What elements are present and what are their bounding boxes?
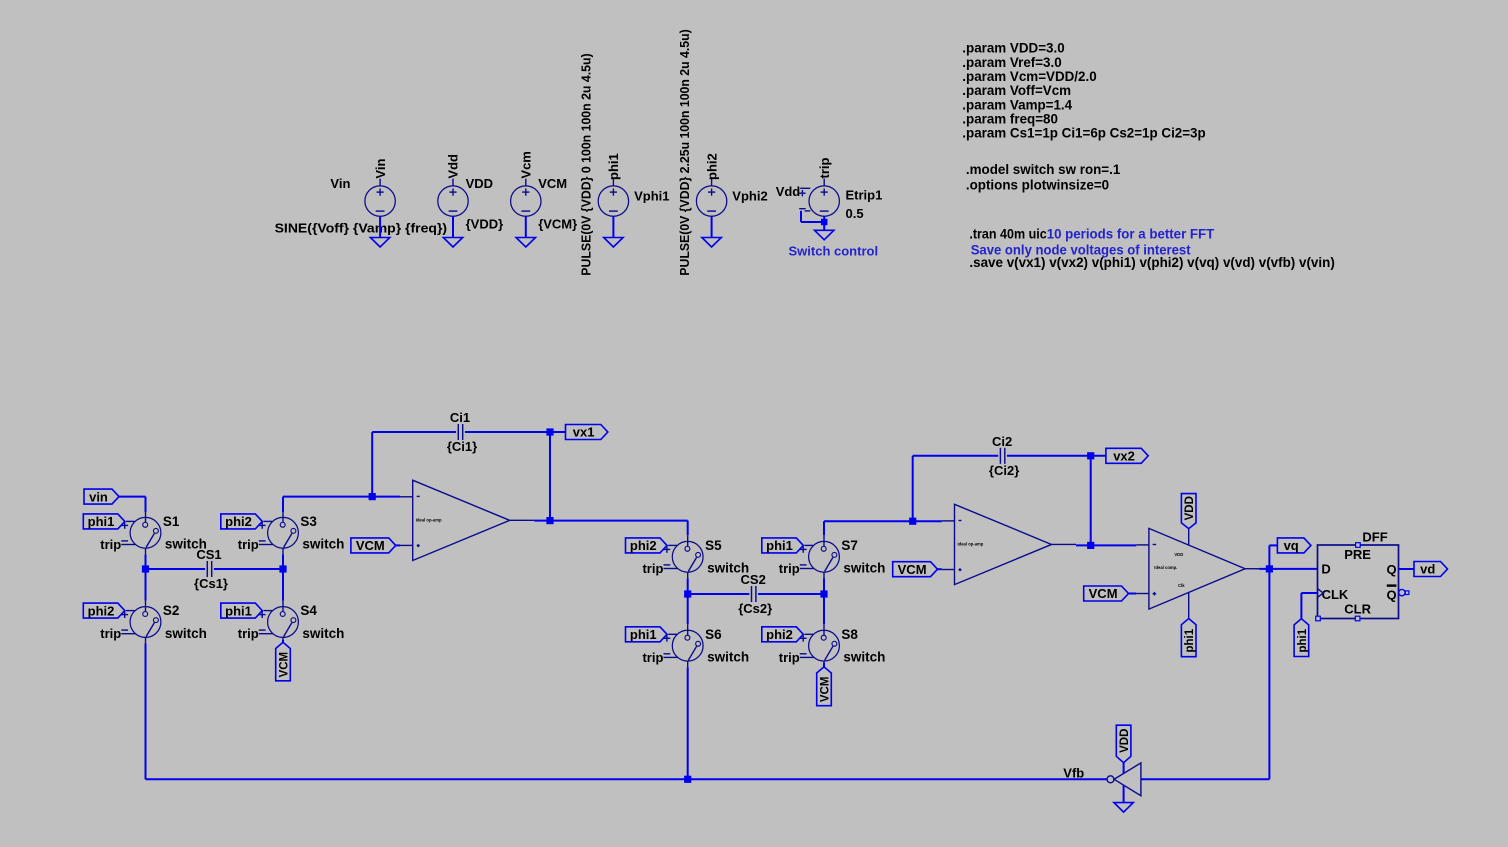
wire xyxy=(1090,456,1092,546)
svg-text:switch: switch xyxy=(302,626,344,641)
net flag VCM under S8 xyxy=(817,667,832,706)
ground xyxy=(443,238,462,248)
voltage source Vphi1 xyxy=(580,53,670,275)
ground xyxy=(516,238,535,248)
spice directive .model xyxy=(966,162,1121,177)
wire xyxy=(452,216,454,237)
svg-text:Clk: Clk xyxy=(1178,583,1185,588)
svg-text:switch: switch xyxy=(707,650,749,665)
svg-text:vd: vd xyxy=(1420,562,1435,577)
voltage source VCM xyxy=(511,151,578,231)
net flag phi1 at S6 xyxy=(626,627,668,642)
net flag phi2 at S8 xyxy=(762,627,804,642)
node junction xyxy=(279,565,286,572)
svg-text:switch: switch xyxy=(843,561,885,576)
svg-text:S6: S6 xyxy=(705,627,722,642)
svg-text:Q: Q xyxy=(1386,587,1396,602)
wire xyxy=(372,431,456,433)
wire xyxy=(282,640,284,642)
net flag phi1 at S1 xyxy=(83,514,125,529)
svg-text:vin: vin xyxy=(89,489,108,504)
net flag vd xyxy=(1414,562,1448,577)
wire xyxy=(1129,593,1137,595)
wire xyxy=(687,578,689,624)
comparator U3 xyxy=(1136,528,1259,618)
svg-text:phi2: phi2 xyxy=(88,603,115,618)
wire xyxy=(1076,544,1136,546)
svg-text:vx1: vx1 xyxy=(573,425,595,440)
wire xyxy=(465,431,566,433)
svg-text:SINE({Voff} {Vamp} {freq}): SINE({Voff} {Vamp} {freq}) xyxy=(275,221,448,236)
wire xyxy=(823,578,825,624)
wire xyxy=(1141,778,1270,780)
net flag VDD at A2 xyxy=(1116,725,1131,763)
node junction xyxy=(546,517,553,524)
svg-text:VDD: VDD xyxy=(1184,496,1196,520)
svg-text:S8: S8 xyxy=(841,627,858,642)
svg-text:VDD: VDD xyxy=(466,176,493,191)
node 0 junction xyxy=(821,219,828,226)
net flag phi1 at DFF xyxy=(1294,619,1309,657)
inverter A2 xyxy=(1107,763,1141,803)
ground xyxy=(1114,803,1133,813)
svg-text:VDD: VDD xyxy=(1174,552,1183,557)
wire xyxy=(1259,568,1317,570)
wire xyxy=(119,497,146,512)
wire xyxy=(1301,593,1317,619)
net flag phi1 at S7 xyxy=(762,538,804,553)
wire xyxy=(711,216,713,237)
voltage source Vphi2 xyxy=(678,29,768,275)
svg-text:trip: trip xyxy=(642,561,663,576)
wire xyxy=(283,497,400,512)
svg-text:0.5: 0.5 xyxy=(846,206,864,221)
net flag vx1 xyxy=(566,425,608,440)
svg-text:trip: trip xyxy=(238,537,259,552)
net flag phi1 at U3 xyxy=(1181,619,1196,657)
svg-text:phi2: phi2 xyxy=(704,153,719,180)
net flag VDD at U3 xyxy=(1181,494,1196,529)
svg-text:{VDD}: {VDD} xyxy=(466,217,504,232)
node junction xyxy=(909,518,916,525)
net flag vq xyxy=(1277,538,1311,553)
wire xyxy=(938,568,942,570)
ground xyxy=(702,238,721,248)
node junction xyxy=(546,428,553,435)
wire xyxy=(1269,545,1277,569)
svg-text:phi1: phi1 xyxy=(606,153,621,180)
svg-text:.param Vamp=1.4: .param Vamp=1.4 xyxy=(962,97,1072,112)
node junction xyxy=(1087,542,1094,549)
capacitor CS2 xyxy=(738,572,772,616)
wire xyxy=(823,216,825,230)
svg-text:.param VDD=3.0: .param VDD=3.0 xyxy=(962,41,1064,56)
svg-text:trip: trip xyxy=(779,650,800,665)
svg-text:VCM: VCM xyxy=(1089,586,1118,601)
svg-text:Ideal op-amp: Ideal op-amp xyxy=(958,542,984,547)
wire vfb rail xyxy=(146,778,1108,780)
D flip-flop A1 (DFF) xyxy=(1316,529,1409,621)
voltage source VDD xyxy=(438,154,503,232)
svg-text:{Cs1}: {Cs1} xyxy=(194,576,228,591)
node junction xyxy=(142,565,149,572)
svg-text:S5: S5 xyxy=(705,538,722,553)
svg-text:PRE: PRE xyxy=(1344,547,1371,562)
svg-text:phi1: phi1 xyxy=(225,603,252,618)
wire xyxy=(913,455,999,457)
svg-text:Q: Q xyxy=(1386,562,1396,577)
svg-text:{VCM}: {VCM} xyxy=(538,217,577,232)
svg-text:Ideal op-amp: Ideal op-amp xyxy=(416,517,442,522)
node junction xyxy=(1266,565,1273,572)
svg-text:Ci2: Ci2 xyxy=(992,434,1012,449)
node junction xyxy=(1087,452,1094,459)
svg-text:trip: trip xyxy=(817,158,832,179)
svg-text:Vphi1: Vphi1 xyxy=(634,188,669,203)
wire xyxy=(687,667,689,779)
svg-text:vx2: vx2 xyxy=(1113,449,1135,464)
svg-text:phi1: phi1 xyxy=(630,627,657,642)
svg-text:VCM: VCM xyxy=(898,562,927,577)
net flag phi2 at S2 xyxy=(83,603,125,618)
svg-text:Vdd: Vdd xyxy=(446,154,461,179)
svg-text:VCM: VCM xyxy=(820,677,832,703)
wire xyxy=(214,568,283,570)
svg-text:Vin: Vin xyxy=(330,176,350,191)
svg-text:.param Vcm=VDD/2.0: .param Vcm=VDD/2.0 xyxy=(962,69,1096,84)
svg-text:phi2: phi2 xyxy=(766,627,793,642)
svg-text:S1: S1 xyxy=(163,514,180,529)
op-amp U2 xyxy=(942,504,1076,584)
net flag VCM under S4 xyxy=(276,642,291,681)
svg-text:phi1: phi1 xyxy=(1297,628,1309,652)
wire xyxy=(1399,568,1415,570)
switch S8 xyxy=(779,624,886,667)
svg-text:VCM: VCM xyxy=(279,652,291,678)
spice directive .save xyxy=(969,255,1334,270)
svg-text:switch: switch xyxy=(165,626,207,641)
switch S3 xyxy=(238,511,345,554)
wire xyxy=(687,521,689,536)
switch S4 xyxy=(238,601,345,644)
svg-text:phi2: phi2 xyxy=(630,538,657,553)
svg-text:Vphi2: Vphi2 xyxy=(732,188,767,203)
svg-text:trip: trip xyxy=(642,650,663,665)
node junction xyxy=(820,590,827,597)
svg-text:phi1: phi1 xyxy=(1184,628,1196,652)
svg-text:Vfb: Vfb xyxy=(1063,765,1084,780)
net flag phi1 at S4 xyxy=(221,603,262,618)
wire xyxy=(534,520,688,522)
ground xyxy=(815,230,834,240)
svg-text:.model switch sw ron=.1: .model switch sw ron=.1 xyxy=(966,162,1121,177)
switch S6 xyxy=(642,624,749,667)
svg-text:.options plotwinsize=0: .options plotwinsize=0 xyxy=(966,178,1109,193)
svg-text:Switch control: Switch control xyxy=(789,243,879,258)
svg-text:.param Cs1=1p Ci1=6p Cs2=1p Ci: .param Cs1=1p Ci1=6p Cs2=1p Ci2=3p xyxy=(962,126,1205,141)
ground xyxy=(370,238,389,248)
wire xyxy=(396,544,400,546)
net flag phi2 at S3 xyxy=(221,514,262,529)
svg-text:.tran 40m uic: .tran 40m uic xyxy=(969,226,1047,241)
wire xyxy=(379,216,381,237)
svg-text:vq: vq xyxy=(1284,538,1299,553)
net flag vin xyxy=(84,489,119,504)
comment text Switch control xyxy=(789,243,879,258)
wire xyxy=(612,216,614,237)
node junction xyxy=(369,493,376,500)
svg-text:phi1: phi1 xyxy=(766,538,793,553)
svg-text:Vin: Vin xyxy=(373,159,388,179)
svg-text:S2: S2 xyxy=(163,603,180,618)
node junction xyxy=(684,776,691,783)
svg-text:{Ci1}: {Ci1} xyxy=(447,439,477,454)
wire xyxy=(145,644,147,780)
op-amp U1 xyxy=(400,480,534,560)
wire xyxy=(525,216,527,237)
net flag VCM at U3 xyxy=(1084,586,1129,601)
switch S2 xyxy=(100,601,207,644)
svg-text:Ci1: Ci1 xyxy=(450,410,470,425)
wire xyxy=(282,554,284,600)
capacitor CS1 xyxy=(194,547,228,591)
wire xyxy=(145,554,147,600)
wire xyxy=(549,432,551,521)
svg-text:CS1: CS1 xyxy=(196,547,221,562)
svg-text:10 periods for a better FFT: 10 periods for a better FFT xyxy=(1047,226,1215,241)
capacitor Ci2 xyxy=(989,434,1019,478)
svg-text:PULSE(0V {VDD} 2.25u 100n 100n: PULSE(0V {VDD} 2.25u 100n 100n 2u 4.5u) xyxy=(678,29,692,275)
label Vfb xyxy=(1063,765,1084,780)
svg-text:phi2: phi2 xyxy=(225,514,252,529)
capacitor Ci1 xyxy=(447,410,477,454)
net flag VCM at U1 xyxy=(351,538,396,553)
wire xyxy=(912,456,914,521)
svg-text:.param freq=80: .param freq=80 xyxy=(962,111,1058,126)
voltage source Vin xyxy=(275,159,448,236)
svg-text:D: D xyxy=(1321,562,1330,577)
svg-text:.param Voff=Vcm: .param Voff=Vcm xyxy=(962,83,1071,98)
svg-text:CLK: CLK xyxy=(1322,587,1349,602)
svg-text:Etrip1: Etrip1 xyxy=(846,188,883,203)
wire xyxy=(371,432,373,497)
comment Save only node voltages of interest xyxy=(971,242,1191,257)
svg-text:trip: trip xyxy=(100,537,121,552)
wire xyxy=(146,568,206,570)
wire xyxy=(688,593,750,595)
svg-text:PULSE(0V {VDD} 0 100n 100n 2u: PULSE(0V {VDD} 0 100n 100n 2u 4.5u) xyxy=(580,53,594,275)
spice directive .tran xyxy=(969,226,1215,241)
svg-text:.param Vref=3.0: .param Vref=3.0 xyxy=(962,55,1061,70)
wire xyxy=(1007,455,1106,457)
svg-text:VCM: VCM xyxy=(538,176,567,191)
svg-text:CS2: CS2 xyxy=(741,572,766,587)
svg-text:trip: trip xyxy=(779,561,800,576)
wire xyxy=(801,211,824,222)
svg-text:S4: S4 xyxy=(300,603,317,618)
svg-text:CLR: CLR xyxy=(1344,602,1371,617)
svg-text:phi1: phi1 xyxy=(88,514,115,529)
net flag VCM at U2 xyxy=(893,562,938,577)
wire xyxy=(758,593,824,595)
svg-text:S7: S7 xyxy=(841,538,858,553)
net flag phi2 at S5 xyxy=(626,538,668,553)
svg-text:{Cs2}: {Cs2} xyxy=(738,601,772,616)
svg-text:switch: switch xyxy=(302,537,344,552)
wire xyxy=(1268,569,1270,779)
svg-text:Vcm: Vcm xyxy=(518,151,533,178)
svg-text:Vdd: Vdd xyxy=(776,184,801,199)
switch S5 xyxy=(642,535,749,578)
svg-text:DFF: DFF xyxy=(1362,529,1387,544)
node junction xyxy=(684,590,691,597)
VCVS Etrip1 xyxy=(776,158,883,221)
svg-text:trip: trip xyxy=(238,626,259,641)
svg-text:VDD: VDD xyxy=(1119,729,1131,753)
wire xyxy=(823,663,825,667)
switch S7 xyxy=(779,535,886,578)
svg-text:S3: S3 xyxy=(300,514,317,529)
svg-text:trip: trip xyxy=(100,626,121,641)
svg-text:.save v(vx1) v(vx2) v(phi1) v(: .save v(vx1) v(vx2) v(phi1) v(phi2) v(vq… xyxy=(969,255,1334,270)
spice directive .param block xyxy=(962,41,1205,141)
svg-text:Ideal comp.: Ideal comp. xyxy=(1154,565,1177,570)
switch S1 xyxy=(100,511,207,554)
svg-text:switch: switch xyxy=(843,650,885,665)
spice directive .options xyxy=(966,178,1109,193)
svg-text:VCM: VCM xyxy=(356,538,385,553)
svg-text:{Ci2}: {Ci2} xyxy=(989,463,1019,478)
wire xyxy=(824,521,942,535)
ground xyxy=(604,238,623,248)
net flag vx2 xyxy=(1106,448,1148,463)
